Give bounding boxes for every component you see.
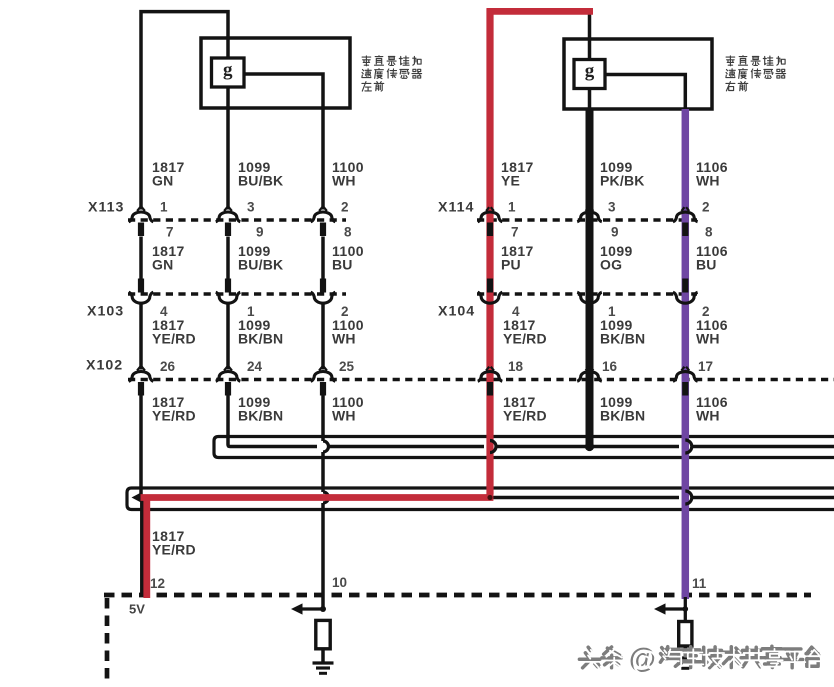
connector X103 pin2 terminal: [320, 279, 326, 293]
wire left sensor g-out right: [244, 74, 323, 108]
wire 5V rail arrow end: [132, 492, 142, 502]
svg-text:X113: X113: [88, 200, 124, 216]
junction blob black wire to upper rail: [585, 442, 594, 451]
g-cell box U2 right: [574, 60, 605, 89]
wire 1100 WH seg X103-X102: [321, 303, 325, 370]
connector X113 pin3 terminal: [224, 207, 232, 211]
wire pin11 below module line: [684, 597, 687, 622]
svg-text:WH: WH: [696, 172, 720, 188]
watermark text 头条@汽车技术共享平台 gray: [579, 647, 621, 668]
svg-text:PU: PU: [501, 256, 521, 272]
wire right sensor pin3 stub: [588, 89, 592, 110]
connector X104 pin1 terminal: [586, 279, 592, 293]
connector X114 pin3 terminal: [586, 207, 594, 211]
svg-text:BU: BU: [332, 256, 353, 272]
wire 1817 YE/RD seg rail-pin12 black under: [140, 498, 144, 597]
svg-text:BK/BN: BK/BN: [600, 407, 645, 423]
svg-text:YE/RD: YE/RD: [152, 541, 196, 557]
wire splice rail upper seg3: [496, 445, 680, 449]
svg-text:1: 1: [160, 200, 168, 215]
watermark emboss white offset copy: [582, 650, 624, 671]
svg-text:PK/BK: PK/BK: [600, 172, 645, 188]
svg-text:WH: WH: [332, 407, 356, 423]
resistor R2 internal pin11: [679, 622, 692, 647]
wire splice rail upper seg4: [692, 445, 834, 449]
svg-text:1: 1: [508, 200, 516, 215]
connector X102 pin16 terminal: [586, 367, 594, 371]
svg-text:2: 2: [341, 200, 349, 215]
wire left sensor pin3 stub: [226, 87, 230, 210]
svg-text:YE/RD: YE/RD: [503, 330, 547, 346]
svg-text:X104: X104: [438, 304, 475, 320]
connector X113 pin2 terminal: [319, 207, 327, 211]
svg-text:BK/BN: BK/BN: [600, 330, 645, 346]
wire 1817 GN seg X113-X103: [139, 237, 143, 279]
svg-text:BU/BK: BU/BK: [238, 256, 283, 272]
svg-text:g: g: [223, 60, 233, 81]
g-cell box U1 left: [212, 58, 245, 87]
wire 1100 BU seg X113-X103: [321, 237, 325, 279]
svg-text:GN: GN: [152, 172, 173, 188]
label left sensor name line2: [362, 69, 422, 79]
svg-text:17: 17: [698, 359, 713, 374]
harness sheath lower outer: [127, 488, 834, 510]
svg-text:YE/RD: YE/RD: [503, 407, 547, 423]
wire 1100 WH seg bus1-bus2: [321, 452, 325, 492]
svg-text:3: 3: [247, 200, 255, 215]
svg-text:BU/BK: BU/BK: [238, 172, 283, 188]
label right sensor name: [726, 56, 785, 66]
connector X102 pin25 terminal: [319, 367, 327, 371]
wire 1817 YE red highlight vertical: [486, 8, 493, 494]
connector X102 pin18 terminal: [486, 367, 494, 371]
svg-text:8: 8: [344, 225, 352, 240]
svg-text:g: g: [585, 61, 595, 82]
wire 1099 BU/BK seg X113-X103: [226, 237, 230, 279]
connector X102 pin26 terminal: [137, 367, 145, 371]
wire resistor to ground right: [684, 646, 688, 658]
connector X103 housing dashed line: [128, 292, 346, 295]
control module dashed border top: [104, 593, 811, 598]
svg-text:12: 12: [150, 576, 165, 591]
control module dashed border left: [105, 598, 110, 681]
svg-text:X103: X103: [87, 304, 124, 320]
ground G2 right: [675, 656, 696, 659]
connector X102 pin17 terminal: [681, 367, 689, 371]
wire 1817 YE/RD seg X102-rail: [139, 395, 143, 498]
svg-text:10: 10: [332, 575, 347, 590]
svg-text:18: 18: [508, 359, 524, 374]
wire left sensor top loop: [141, 12, 228, 210]
wire 5V rail red highlight: [141, 494, 494, 501]
svg-text:WH: WH: [332, 172, 356, 188]
svg-text:WH: WH: [332, 330, 356, 346]
svg-text:26: 26: [160, 359, 176, 374]
svg-text:BU: BU: [696, 256, 717, 272]
connector X103 pin1 terminal: [225, 279, 231, 293]
wire 1099 BK/BN seg X103-X102: [226, 303, 230, 370]
ground G1 left: [313, 661, 334, 664]
wire 1817 GN seg X103-X102: [139, 303, 143, 370]
svg-text:25: 25: [339, 359, 355, 374]
wire 1100 WH jog over upper rail: [323, 441, 329, 452]
wire right sensor g-out right: [605, 75, 685, 110]
connector X104 housing dashed line: [477, 292, 697, 295]
wire splice rail upper seg2: [330, 445, 485, 449]
wire resistor to ground left: [321, 649, 325, 663]
svg-text:@: @: [632, 645, 659, 676]
svg-text:GN: GN: [152, 256, 173, 272]
label left sensor name: [362, 56, 421, 66]
wire splice rail upper seg1: [228, 395, 317, 447]
svg-text:YE: YE: [501, 172, 520, 188]
svg-text:7: 7: [166, 225, 174, 240]
jog of upper rail at red wire: [490, 441, 496, 453]
svg-text:WH: WH: [696, 407, 720, 423]
label right sensor name line3: [726, 82, 748, 92]
wire right sensor pin1 top stub black: [588, 13, 592, 60]
connector X102 housing dashed line: [128, 378, 834, 381]
junction dot pin11: [683, 606, 689, 612]
svg-text:16: 16: [602, 359, 618, 374]
jog of 5V rail at purple wire: [685, 491, 692, 504]
svg-text:9: 9: [256, 225, 264, 240]
svg-text:X102: X102: [86, 358, 123, 374]
svg-text:5V: 5V: [129, 602, 145, 617]
svg-text:WH: WH: [696, 330, 720, 346]
connector X114 pin2 terminal: [681, 207, 689, 211]
arrow internal signal pin11: [661, 607, 685, 610]
wire 1817 YE red highlight top: [487, 8, 593, 15]
harness sheath upper outer: [214, 437, 834, 458]
svg-text:YE/RD: YE/RD: [152, 407, 196, 423]
connector X114 housing dashed line: [477, 218, 697, 221]
wire 1100 WH seg sensor-X113: [321, 108, 325, 210]
svg-text:24: 24: [247, 359, 263, 374]
connector X114 pin1 terminal: [486, 207, 494, 211]
wire 5V rail left stub: [140, 496, 150, 500]
wire 5V rail mid seg: [489, 496, 679, 500]
svg-text:8: 8: [705, 225, 713, 240]
svg-text:3: 3: [608, 200, 616, 215]
svg-text:BK/BN: BK/BN: [238, 330, 283, 346]
jog of upper rail at purple wire: [685, 440, 692, 453]
wire 5V rail right seg: [692, 496, 834, 500]
svg-text:9: 9: [611, 225, 619, 240]
sensor box right (vertical suspension accel sensor RF): [564, 39, 712, 109]
svg-text:BK/BN: BK/BN: [238, 407, 283, 423]
wire 1106 WH purple highlight: [682, 109, 690, 599]
wire 1099 PK/BK thick black highlight: [586, 109, 594, 449]
connector X113 pin1 terminal: [137, 207, 145, 211]
junction dot red wire to 5V rail: [487, 495, 492, 500]
svg-text:YE/RD: YE/RD: [152, 330, 196, 346]
svg-text:11: 11: [692, 576, 707, 591]
connector X113 housing dashed line: [128, 218, 346, 221]
connector X102 pin24 terminal: [224, 367, 232, 371]
wire 1100 WH seg bus2-pin10: [321, 503, 325, 609]
label left sensor name line3: [362, 82, 384, 92]
wire 1100 WH jog over 5V rail: [323, 492, 329, 503]
junction dot pin10: [320, 606, 326, 612]
svg-text:X114: X114: [438, 200, 474, 216]
svg-text:2: 2: [702, 200, 710, 215]
sensor box left (vertical suspension accel sensor LF): [201, 38, 350, 108]
svg-text:7: 7: [511, 225, 519, 240]
connector X104 pin2 terminal: [682, 279, 688, 293]
arrow internal signal pin10: [298, 607, 323, 610]
connector X103 pin4 terminal: [138, 279, 144, 293]
wire 1817 YE/RD red highlight to pin12: [143, 500, 150, 599]
resistor R1 internal pin10: [316, 620, 330, 648]
svg-text:OG: OG: [600, 256, 622, 272]
connector X104 pin4 terminal: [487, 279, 493, 293]
label right sensor name line2: [726, 69, 786, 79]
wire 1100 WH seg X102-bus1: [321, 395, 325, 442]
